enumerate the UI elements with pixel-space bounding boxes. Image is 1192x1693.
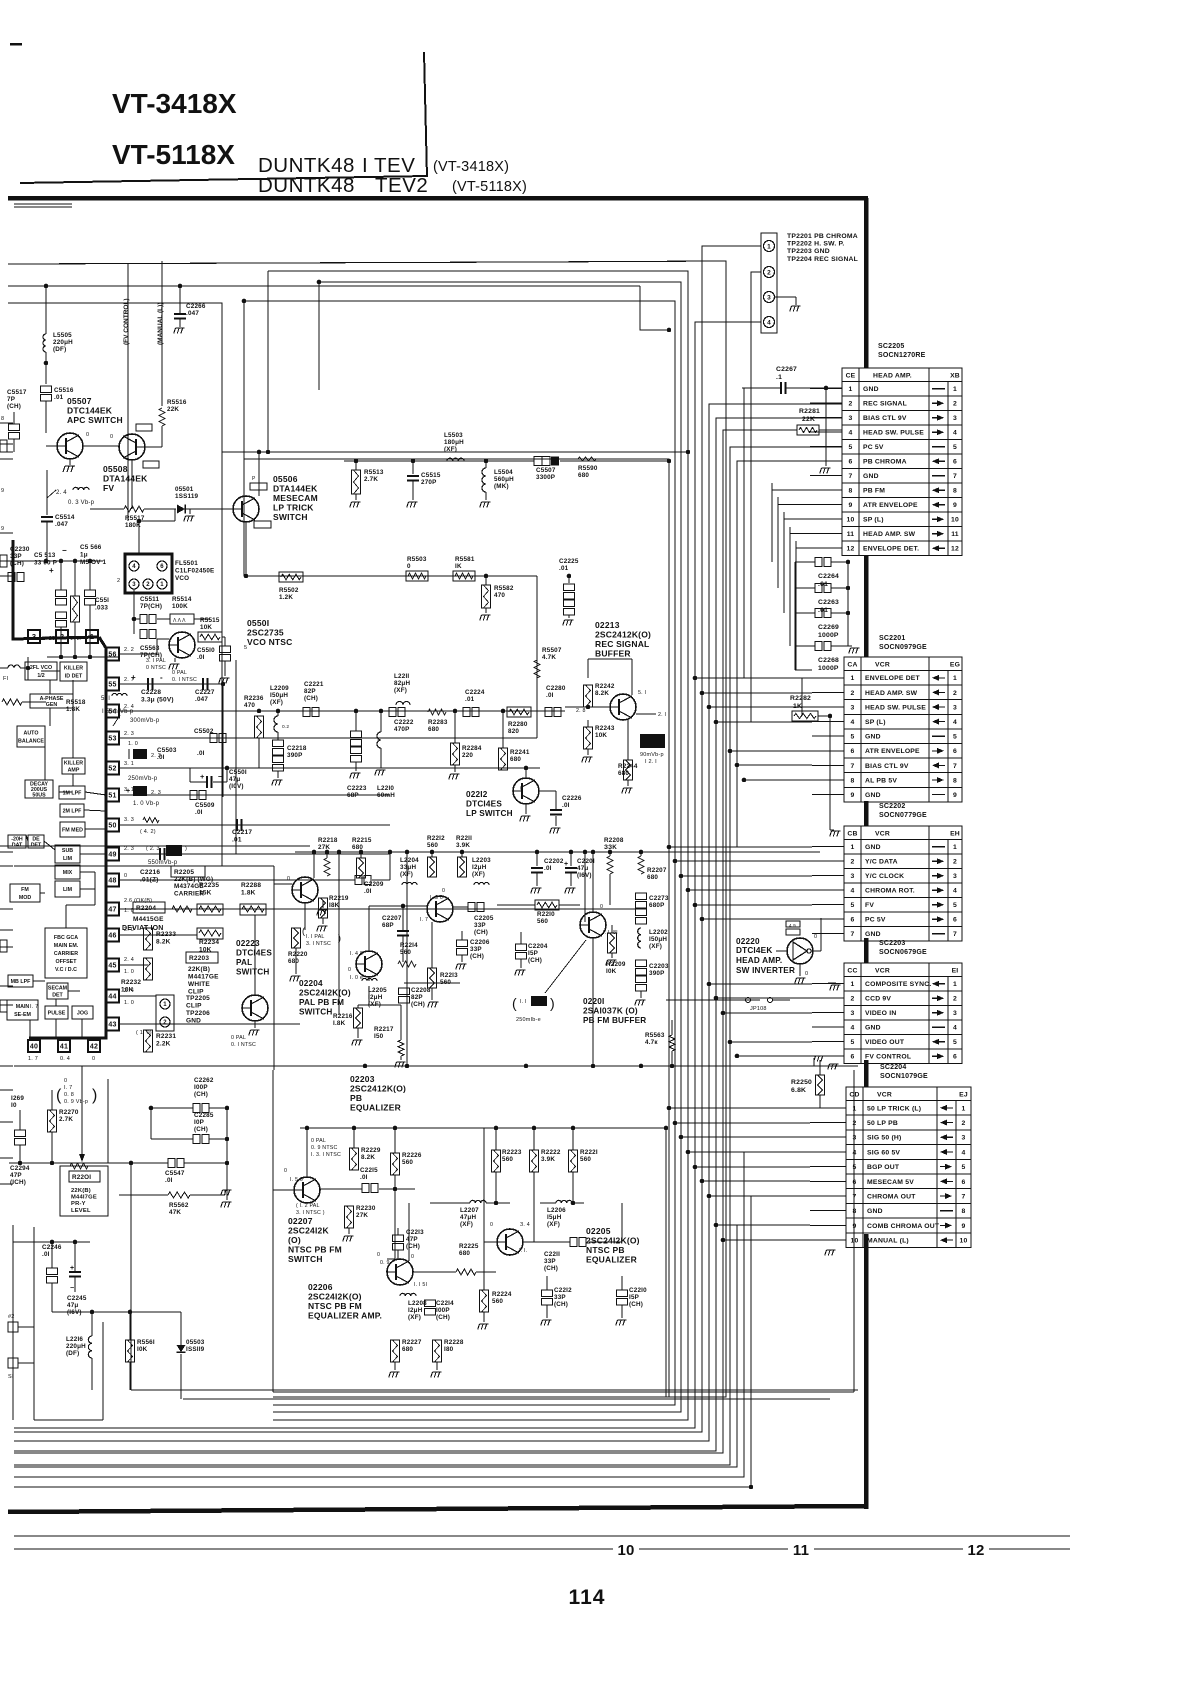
svg-text:ІSSІІ9: ІSSІІ9 (186, 1346, 205, 1353)
chip boxes above Q2220 (786, 921, 800, 927)
svg-text:MOD: MOD (19, 895, 32, 901)
svg-text:4: 4 (953, 719, 957, 726)
wire vertical x537 lower (536, 712, 538, 738)
svg-text:L2207: L2207 (460, 1207, 479, 1214)
svg-text:02206: 02206 (308, 1282, 333, 1292)
svg-text:82μH: 82μH (394, 680, 410, 687)
resistor R2284 220 (451, 743, 460, 765)
IC block MB LPF (8, 975, 33, 987)
svg-text:І0: І0 (11, 1102, 17, 1109)
svg-text:(XF): (XF) (394, 687, 407, 694)
svg-text:R22І0: R22І0 (537, 911, 555, 918)
svg-text:R5518: R5518 (66, 699, 86, 706)
underline dashes (14, 203, 72, 205)
svg-text:R5562: R5562 (169, 1202, 189, 1209)
wire Q2220 output (811, 950, 821, 952)
resistor R5517 180K (124, 506, 144, 512)
svg-text:2. 4: 2. 4 (124, 957, 134, 963)
svg-text:2. 3: 2. 3 (124, 731, 134, 737)
IC block PULSE (45, 1006, 68, 1019)
svg-text:GND: GND (865, 844, 881, 851)
svg-text:(CH): (CH) (194, 1091, 208, 1098)
svg-text:2: 2 (767, 269, 771, 276)
svg-text:R5515: R5515 (200, 617, 220, 624)
svg-text:FV CONTROL: FV CONTROL (865, 1054, 911, 1061)
resistor R2244 680 (624, 760, 633, 780)
svg-text:C550І: C550І (229, 769, 247, 776)
svg-text:І50μH: І50μH (649, 936, 667, 943)
wire Q2201 collector (592, 852, 594, 912)
svg-text:EG: EG (950, 662, 960, 669)
wire Q2213 base (565, 706, 610, 708)
wires SC2204 rows to bus (669, 1107, 810, 1109)
svg-text:R2284: R2284 (462, 745, 482, 752)
svg-text:Y/C DATA: Y/C DATA (865, 859, 898, 866)
svg-text:560μH: 560μH (494, 476, 514, 483)
svg-text:L5504: L5504 (494, 469, 513, 476)
svg-text:.01: .01 (232, 837, 242, 844)
svg-text:7P(CH): 7P(CH) (140, 603, 162, 610)
wire cluster rail y561 (8, 560, 103, 562)
resistor R2234 10K (197, 928, 223, 939)
svg-text:C2228: C2228 (141, 689, 161, 696)
svg-text:6: 6 (962, 1179, 966, 1186)
resistor R2204 deviation (133, 902, 165, 913)
svg-text:2. І: 2. І (658, 712, 666, 718)
wire L5503 row (344, 460, 534, 462)
wire rail E corner down (640, 286, 669, 330)
svg-text:(MANUAL (L)): (MANUAL (L)) (157, 303, 164, 345)
svg-text:DTA144EK: DTA144EK (273, 484, 318, 494)
ground Q2220 emitter (799, 964, 801, 976)
svg-text:LIM: LIM (63, 887, 73, 893)
svg-text:6: 6 (160, 564, 164, 570)
svg-text:PB FM: PB FM (863, 488, 885, 495)
ground Q5505 (174, 658, 176, 662)
svg-text:05508: 05508 (103, 464, 128, 474)
svg-text:4: 4 (132, 564, 136, 570)
svg-text:02207: 02207 (288, 1216, 313, 1226)
svg-text:+: + (200, 772, 205, 781)
svg-text:5: 5 (953, 444, 957, 451)
svg-text:R556І: R556І (137, 1339, 155, 1346)
svg-text:8.2K: 8.2K (156, 939, 171, 946)
svg-text:VCO NTSC: VCO NTSC (247, 637, 293, 647)
wire vertical x131 (130, 1163, 132, 1390)
svg-text:GND: GND (867, 1208, 883, 1215)
svg-text:180μH: 180μH (444, 439, 464, 446)
svg-text:6: 6 (851, 1054, 855, 1061)
svg-text:0: 0 (86, 432, 89, 438)
svg-text:BIAS CTL 9V: BIAS CTL 9V (865, 763, 909, 770)
svg-text:C2294: C2294 (10, 1165, 30, 1172)
svg-text:560: 560 (580, 1156, 591, 1163)
svg-text:680: 680 (459, 1250, 470, 1257)
wire Q5506 emitter down (245, 522, 247, 576)
svg-text:33P: 33P (544, 1258, 556, 1265)
svg-text:3300P: 3300P (536, 474, 555, 481)
svg-text:8.2K: 8.2K (595, 690, 609, 697)
wire L2205 node (368, 977, 370, 981)
svg-text:470: 470 (494, 592, 505, 599)
IC pin 56 (106, 648, 119, 661)
svg-text:(XF): (XF) (270, 699, 283, 706)
wire Q2203b collector (368, 906, 370, 951)
svg-text:0: 0 (64, 1078, 67, 1084)
svg-text:82P: 82P (304, 688, 316, 695)
svg-text:0: 0 (124, 873, 127, 879)
svg-text:(VT-5118X): (VT-5118X) (452, 179, 527, 195)
svg-text:): ) (338, 933, 341, 943)
inductor left edge F1 (8, 665, 20, 668)
svg-text:C2266: C2266 (186, 303, 206, 310)
svg-text:.0І: .0І (197, 654, 205, 661)
svg-text:33μH: 33μH (400, 864, 416, 871)
svg-text:3: 3 (132, 582, 136, 588)
bus vertical x737 SC2205 pin6 (737, 461, 842, 847)
wire Q2207 emitter to C2215 (320, 1188, 362, 1190)
svg-text:680: 680 (402, 1346, 413, 1353)
svg-text:3: 3 (851, 873, 855, 880)
wire FL5501 pin4 up (138, 521, 140, 554)
IC pin 48 (106, 874, 119, 887)
svg-text:0.2: 0.2 (282, 724, 289, 730)
svg-text:02203: 02203 (350, 1074, 375, 1084)
svg-text:R5581: R5581 (455, 556, 475, 563)
svg-text:C2273: C2273 (649, 895, 669, 902)
svg-text:M44І7GE: M44І7GE (71, 1195, 97, 1201)
resistor R5562 47K (119, 1194, 168, 1196)
svg-text:4: 4 (767, 319, 771, 326)
svg-text:.01: .01 (54, 394, 64, 401)
svg-text:2: 2 (953, 996, 957, 1003)
svg-text:2: 2 (962, 1120, 966, 1127)
svg-text:33P: 33P (554, 1294, 566, 1301)
diode D5503 1SS119 (177, 1345, 186, 1352)
svg-text:І. І 5І: І. І 5І (414, 1282, 427, 1288)
svg-text:І. 3 0: І. 3 0 (430, 895, 443, 901)
svg-text:33P: 33P (10, 553, 22, 560)
svg-text:2: 2 (146, 582, 150, 588)
svg-text:(XF): (XF) (649, 943, 662, 950)
capacitor C2223 68P (351, 731, 362, 738)
svg-text:ATR ENVELOPE: ATR ENVELOPE (865, 748, 920, 755)
wire Q2204 emitter down (304, 903, 306, 930)
transistor Q2204 PAL PB FM switch (292, 877, 318, 903)
IC top pin 1 (86, 630, 98, 643)
svg-text:02205: 02205 (586, 1226, 611, 1236)
ground Q2223 (254, 1021, 256, 1028)
svg-text:R2234: R2234 (199, 939, 219, 946)
resistor R5516 22K (159, 408, 165, 426)
svg-text:HEAD AMP. SW: HEAD AMP. SW (865, 690, 918, 697)
IC block A-PHASE (30, 694, 73, 708)
svg-text:4: 4 (953, 430, 957, 437)
svg-text:LIM: LIM (63, 856, 73, 862)
svg-text:R2218: R2218 (318, 837, 338, 844)
svg-text:(І6V): (І6V) (577, 872, 592, 879)
svg-text:NTSC PB FM: NTSC PB FM (308, 1301, 362, 1311)
inductor L2210 60mH (377, 732, 381, 748)
svg-text:Y/C CLOCK: Y/C CLOCK (865, 873, 904, 880)
wire bottom-left vertical x34 (33, 1227, 35, 1420)
svg-text:C2207: C2207 (382, 915, 402, 922)
wires into SC2203 (812, 983, 844, 985)
svg-text:560: 560 (492, 1298, 503, 1305)
svg-text:2SC2412K(O): 2SC2412K(O) (595, 630, 651, 640)
svg-text:C55І0: C55І0 (197, 647, 215, 654)
svg-text:SWITCH: SWITCH (288, 1254, 323, 1264)
svg-text:8: 8 (1, 416, 4, 422)
svg-text:TP2205: TP2205 (186, 995, 210, 1002)
svg-text:0: 0 (442, 888, 445, 894)
wire Q5508 down (131, 460, 133, 509)
svg-text:0220І: 0220І (583, 997, 605, 1006)
wire pin47 row (119, 908, 640, 910)
waveform box 90mVb-p (640, 734, 665, 748)
svg-text:680P: 680P (649, 902, 665, 909)
IC pin 54 (106, 705, 119, 718)
svg-text:NTSC PB FM: NTSC PB FM (288, 1245, 342, 1255)
transistor Q2203 equalizer (356, 951, 382, 977)
transistor Q2205 NTSC PB equalizer (497, 1229, 523, 1255)
svg-text:З. 4: З. 4 (520, 1222, 530, 1228)
svg-text:GND: GND (865, 1025, 881, 1032)
svg-text:VCO: VCO (175, 575, 189, 582)
svg-text:0 PAL: 0 PAL (311, 1138, 326, 1144)
resistor R2203 22K(B) white clip (186, 952, 218, 963)
svg-text:CA: CA (847, 662, 857, 669)
capacitor C2203 390P (636, 960, 647, 967)
svg-text:5: 5 (953, 734, 957, 741)
svg-text:2: 2 (163, 1020, 167, 1026)
bus vertical x702 from TP1 (14, 246, 761, 1432)
svg-text:DTC144EK: DTC144EK (67, 406, 113, 416)
svg-text:52: 52 (108, 766, 116, 773)
IC block FBC GCA (45, 928, 87, 978)
chip jumper Q5506 top (250, 483, 267, 490)
svg-text:І. І: І. І (520, 999, 527, 1005)
svg-text:1. 7: 1. 7 (28, 1056, 38, 1062)
svg-text:C2204: C2204 (528, 943, 548, 950)
svg-text:(CH): (CH) (544, 1265, 558, 1272)
wire top rail D (244, 301, 675, 1405)
svg-text:R2216: R2216 (333, 1013, 353, 1020)
svg-text:0. 3 Vb-p: 0. 3 Vb-p (68, 500, 95, 506)
svg-text:0: 0 (600, 904, 603, 910)
svg-text:02220: 02220 (736, 937, 760, 946)
svg-text:BALANCE: BALANCE (18, 739, 44, 745)
ground R2213 (431, 988, 433, 1000)
svg-text:CC: CC (847, 968, 857, 975)
svg-text:0. 8: 0. 8 (64, 1092, 74, 1098)
svg-text:R5507: R5507 (542, 647, 562, 654)
svg-text:3: 3 (953, 1010, 957, 1017)
svg-text:C22І0: C22І0 (629, 1287, 647, 1294)
grid number 12 (963, 1540, 989, 1557)
svg-text:MANUAL (L): MANUAL (L) (867, 1238, 909, 1245)
svg-text:470P: 470P (394, 726, 410, 733)
svg-text:0. І NTSC: 0. І NTSC (231, 1042, 256, 1048)
svg-text:C22І2: C22І2 (554, 1287, 572, 1294)
svg-text:VT-5118X: VT-5118X (112, 139, 235, 170)
svg-text:C2280: C2280 (546, 685, 566, 692)
bus vertical x744 C2267 net (742, 388, 744, 678)
wire R2222 down (533, 1172, 535, 1242)
svg-text:R2282: R2282 (790, 695, 811, 702)
svg-text:2.7K: 2.7K (364, 476, 378, 483)
svg-text:GND: GND (863, 386, 879, 393)
svg-text:0: 0 (377, 1252, 380, 1258)
svg-text:C2269: C2269 (818, 624, 839, 631)
IC block MIX (55, 865, 80, 879)
svg-text:SIG 60 5V: SIG 60 5V (867, 1149, 900, 1156)
resistor R2209 10K (608, 933, 617, 953)
IC pin 53 (106, 732, 119, 745)
svg-text:FV: FV (865, 902, 874, 909)
IC block FM MED (60, 822, 85, 837)
svg-text:(XF): (XF) (472, 871, 485, 878)
IC block SUB (55, 845, 80, 863)
svg-text:0: 0 (407, 563, 411, 570)
capacitor C2222 470P (389, 708, 396, 717)
svg-text:R2280: R2280 (508, 721, 528, 728)
svg-text:(: ( (512, 995, 517, 1011)
svg-text:CB: CB (847, 831, 857, 838)
capacitor C5563 7P (140, 630, 147, 639)
svg-text:1. 0: 1. 0 (128, 741, 138, 747)
svg-text:2SC24І2K(O): 2SC24І2K(O) (299, 989, 351, 998)
wire Q2220 base (776, 950, 787, 952)
svg-text:C2268: C2268 (818, 657, 839, 664)
wire Q2207 collector up (306, 1128, 308, 1177)
svg-text:43: 43 (108, 1022, 116, 1029)
svg-text:4.7к: 4.7к (645, 1039, 658, 1046)
svg-text:4: 4 (962, 1149, 966, 1156)
svg-text:1.8K: 1.8K (66, 706, 80, 713)
wire Q5507 collector to Q5508 (83, 445, 119, 447)
svg-text:BIAS CTL 9V: BIAS CTL 9V (863, 415, 907, 422)
wire Q2205 colum (483, 1128, 485, 1203)
IC block DE (28, 835, 44, 848)
svg-text:PC 5V: PC 5V (863, 444, 884, 451)
svg-text:27K: 27K (318, 844, 330, 851)
svg-text:220μH: 220μH (66, 1343, 86, 1350)
svg-text:C2208: C2208 (411, 987, 431, 994)
svg-text:І2μH: І2μH (408, 1307, 423, 1314)
svg-text:L2205: L2205 (368, 987, 387, 994)
svg-text:(CH): (CH) (436, 1314, 450, 1321)
svg-text:C5515: C5515 (421, 472, 441, 479)
wire top rail C (273, 282, 681, 1412)
capacitor C2266 .047 (179, 286, 181, 313)
bus vertical x709 SC2205 pin2 (14, 404, 842, 1441)
svg-text:1: 1 (962, 1105, 966, 1112)
svg-text:300mVb-p: 300mVb-p (130, 718, 160, 724)
wire Q2223 collector up (254, 915, 256, 995)
resistor R5513 2.7K (355, 461, 357, 470)
wire Q2201 emitter (592, 938, 594, 1066)
svg-text:JP108: JP108 (750, 1006, 767, 1012)
resistor R5502 1.2K (279, 572, 303, 582)
IC block KILLER (60, 662, 87, 681)
svg-text:VCR: VCR (875, 662, 890, 669)
svg-text:MAIN EM.: MAIN EM. (54, 943, 79, 949)
resistor left edge (2, 699, 22, 705)
svg-text:R2270: R2270 (59, 1109, 79, 1116)
svg-text:82P: 82P (411, 994, 423, 1001)
svg-text:(CH): (CH) (528, 957, 542, 964)
wire R5563 row (666, 999, 760, 1001)
svg-text:6: 6 (851, 748, 855, 755)
svg-text:22K: 22K (802, 416, 815, 423)
svg-text:І2μH: І2μH (368, 994, 383, 1001)
svg-text:3.9K: 3.9K (541, 1156, 555, 1163)
bus vertical x669 (244, 459, 669, 1397)
svg-text:GND: GND (865, 734, 881, 741)
svg-text:1: 1 (160, 582, 164, 588)
svg-text:C5509: C5509 (195, 802, 215, 809)
svg-text:C5503: C5503 (157, 747, 177, 754)
svg-text:#2: #2 (8, 1314, 15, 1320)
svg-text:R2209: R2209 (606, 961, 626, 968)
svg-text:C2206: C2206 (470, 939, 490, 946)
svg-text:R2205: R2205 (174, 869, 194, 876)
svg-text:HEAD AMP. SW: HEAD AMP. SW (863, 531, 916, 538)
svg-text:DTA144EK: DTA144EK (103, 474, 148, 484)
svg-text:R2288: R2288 (241, 882, 261, 889)
ground below SC2204 (825, 1250, 836, 1255)
wire R2221 down (572, 1172, 574, 1203)
capacitor C5510 .01 (220, 646, 231, 653)
svg-text:L2204: L2204 (400, 857, 419, 864)
svg-text:FBC GCA: FBC GCA (54, 935, 78, 941)
grid number 10 (613, 1540, 639, 1557)
svg-text:TP2202 H. SW. P.: TP2202 H. SW. P. (787, 241, 844, 248)
svg-text:DET: DET (52, 993, 63, 999)
svg-text:ENVELOPE DET.: ENVELOPE DET. (863, 546, 919, 553)
ground for C2268 group (848, 645, 852, 647)
svg-text:EQUALIZER: EQUALIZER (350, 1103, 401, 1113)
wire R2226 column down (394, 1175, 396, 1259)
PB equalizer enclosure (272, 1070, 274, 1392)
ground R2219 (322, 900, 324, 908)
svg-text:47μ: 47μ (577, 865, 588, 872)
svg-text:VCR: VCR (875, 968, 890, 975)
svg-text:ENVELOPE DET: ENVELOPE DET (865, 675, 921, 682)
svg-text:11: 11 (793, 1542, 809, 1559)
IC U5501 outline (13, 540, 99, 639)
svg-text:R2220: R2220 (288, 951, 308, 958)
board border bottom thick line (8, 1506, 866, 1512)
wire Q2206 collector up (408, 1203, 410, 1261)
svg-text:COMPOSITE SYNC.: COMPOSITE SYNC. (865, 981, 931, 988)
svg-text:R22І3: R22І3 (440, 972, 458, 979)
svg-text:49: 49 (108, 852, 116, 859)
svg-text:10: 10 (960, 1238, 968, 1245)
svg-text:2SAІ0З7K (O): 2SAІ0З7K (O) (583, 1007, 638, 1016)
pad #2 (8, 1322, 18, 1332)
svg-text:10K: 10K (595, 732, 607, 739)
ground Q5507 (69, 459, 71, 465)
IC block 1M LPF (59, 786, 85, 799)
svg-text:680: 680 (618, 770, 629, 777)
wire main row y712 (227, 710, 565, 712)
svg-text:): ) (185, 846, 187, 852)
svg-text:820: 820 (508, 728, 519, 735)
svg-text:І 2. І: І 2. І (645, 759, 657, 765)
wire pin43 row (119, 1023, 300, 1025)
